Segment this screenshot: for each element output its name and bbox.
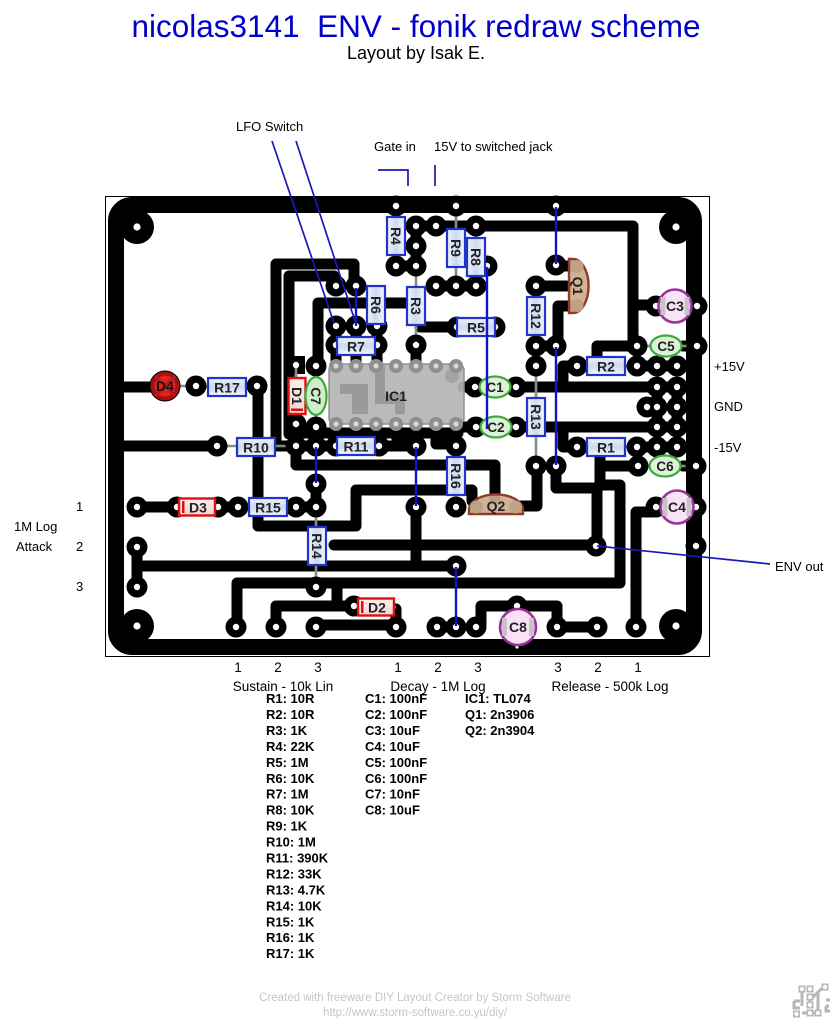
svg-text:C7: 10nF: C7: 10nF: [365, 787, 420, 802]
svg-text:C4: 10uF: C4: 10uF: [365, 739, 420, 754]
svg-text:nicolas3141 ENV - fonik redra: nicolas3141 ENV - fonik redraw scheme: [131, 8, 700, 44]
svg-text:C7: C7: [308, 387, 323, 404]
svg-text:R6: 10K: R6: 10K: [266, 771, 315, 786]
svg-text:R8: 10K: R8: 10K: [266, 803, 315, 818]
svg-text:1: 1: [76, 499, 83, 514]
svg-text:ENV out: ENV out: [775, 559, 824, 574]
svg-text:C3: C3: [666, 298, 684, 314]
svg-text:R11: 390K: R11: 390K: [266, 851, 329, 866]
svg-text:C8: C8: [509, 619, 527, 635]
svg-text:Created with freeware DIY Layo: Created with freeware DIY Layout Creator…: [259, 992, 571, 1004]
svg-text:R15: 1K: R15: 1K: [266, 914, 315, 929]
svg-text:Q1: 2n3906: Q1: 2n3906: [465, 707, 534, 722]
svg-text:15V to switched jack: 15V to switched jack: [434, 139, 553, 154]
svg-text:Release - 500k Log: Release - 500k Log: [551, 679, 668, 694]
svg-text:R2: 10R: R2: 10R: [266, 707, 315, 722]
svg-text:R9: 1K: R9: 1K: [266, 819, 308, 834]
svg-text:R10: 1M: R10: 1M: [266, 835, 316, 850]
svg-text:R3: 1K: R3: 1K: [266, 723, 308, 738]
svg-text:R13: 4.7K: R13: 4.7K: [266, 882, 326, 897]
svg-text:C2: C2: [487, 420, 504, 435]
svg-text:R12: R12: [528, 303, 544, 329]
svg-text:R16: 1K: R16: 1K: [266, 930, 315, 945]
svg-text:R3: R3: [408, 297, 424, 315]
svg-text:R16: R16: [448, 463, 464, 489]
svg-text:-15V: -15V: [714, 440, 742, 455]
svg-text:R7: R7: [347, 339, 365, 355]
svg-text:R11: R11: [344, 439, 369, 455]
svg-text:GND: GND: [714, 399, 743, 414]
svg-text:C4: C4: [668, 499, 686, 515]
svg-text:R4: 22K: R4: 22K: [266, 739, 315, 754]
svg-text:Attack: Attack: [16, 539, 53, 554]
svg-text:R5: R5: [467, 320, 485, 336]
svg-text:D2: D2: [368, 600, 386, 616]
svg-text:3: 3: [76, 579, 83, 594]
svg-text:D4: D4: [156, 378, 174, 394]
svg-text:R14: R14: [309, 533, 325, 559]
svg-text:IC1: TL074: IC1: TL074: [465, 691, 532, 706]
svg-text:C8: 10uF: C8: 10uF: [365, 803, 420, 818]
svg-text:Gate in: Gate in: [374, 139, 416, 154]
svg-text:C1: 100nF: C1: 100nF: [365, 691, 427, 706]
svg-text:R13: R13: [528, 404, 544, 430]
svg-text:+15V: +15V: [714, 359, 745, 374]
svg-text:1: 1: [394, 660, 402, 675]
svg-text:R1: R1: [597, 440, 615, 456]
svg-text:Q1: Q1: [570, 277, 586, 296]
svg-text:3: 3: [554, 660, 562, 675]
svg-text:D3: D3: [189, 500, 207, 516]
svg-text:R1: 10R: R1: 10R: [266, 691, 315, 706]
svg-text:R9: R9: [448, 239, 464, 257]
svg-text:C5: 100nF: C5: 100nF: [365, 755, 427, 770]
svg-text:R7: 1M: R7: 1M: [266, 787, 309, 802]
svg-text:R6: R6: [368, 296, 384, 314]
svg-text:D1: D1: [289, 387, 305, 405]
svg-text:R15: R15: [255, 500, 281, 516]
svg-text:Layout by Isak E.: Layout by Isak E.: [347, 43, 485, 63]
svg-text:3: 3: [314, 660, 322, 675]
svg-text:1: 1: [634, 660, 642, 675]
svg-text:C6: 100nF: C6: 100nF: [365, 771, 427, 786]
svg-text:R12: 33K: R12: 33K: [266, 867, 322, 882]
svg-text:C3: 10uF: C3: 10uF: [365, 723, 420, 738]
svg-text:2: 2: [274, 660, 282, 675]
svg-text:R2: R2: [597, 359, 615, 375]
svg-text:R17: R17: [214, 380, 240, 396]
svg-text:C6: C6: [656, 459, 674, 474]
svg-text:R5: 1M: R5: 1M: [266, 755, 309, 770]
svg-text:http://www.storm-software.co.y: http://www.storm-software.co.yu/diy/: [323, 1007, 508, 1019]
svg-text:R14: 10K: R14: 10K: [266, 898, 322, 913]
svg-text:Q2: 2n3904: Q2: 2n3904: [465, 723, 535, 738]
svg-text:C2: 100nF: C2: 100nF: [365, 707, 427, 722]
svg-text:R10: R10: [243, 440, 269, 456]
svg-text:C1: C1: [486, 380, 504, 395]
svg-text:C5: C5: [657, 339, 675, 354]
svg-text:3: 3: [474, 660, 482, 675]
svg-text:R4: R4: [388, 227, 404, 245]
svg-text:R8: R8: [468, 248, 484, 266]
svg-text:2: 2: [434, 660, 442, 675]
svg-text:LFO Switch: LFO Switch: [236, 119, 303, 134]
svg-text:IC1: IC1: [385, 388, 407, 404]
svg-text:1M Log: 1M Log: [14, 519, 57, 534]
svg-text:R17: 1K: R17: 1K: [266, 946, 315, 961]
svg-text:2: 2: [76, 539, 83, 554]
svg-text:1: 1: [234, 660, 242, 675]
svg-text:Q2: Q2: [487, 498, 506, 514]
svg-text:2: 2: [594, 660, 602, 675]
